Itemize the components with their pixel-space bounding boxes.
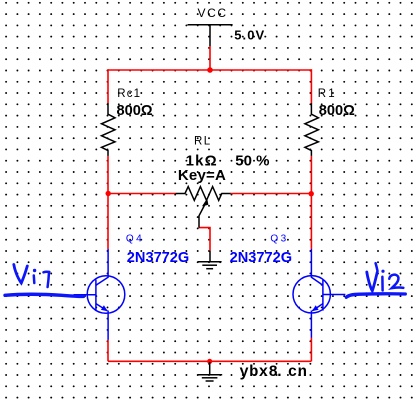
svg-text:Q4: Q4 — [126, 233, 144, 244]
svg-text:800Ω: 800Ω — [117, 103, 153, 119]
svg-text:Rc1: Rc1 — [117, 88, 141, 100]
svg-text:50 %: 50 % — [235, 152, 269, 169]
svg-text:ybx8.cn: ybx8.cn — [239, 363, 307, 381]
svg-text:5.0V: 5.0V — [234, 27, 265, 42]
svg-text:Q3: Q3 — [270, 233, 288, 244]
svg-text:800Ω: 800Ω — [319, 103, 355, 119]
svg-text:VCC: VCC — [198, 6, 228, 20]
svg-text:RL: RL — [194, 136, 212, 148]
svg-text:R1: R1 — [318, 88, 337, 100]
svg-text:2N3772G: 2N3772G — [127, 250, 189, 266]
svg-text:2N3772G: 2N3772G — [230, 250, 292, 266]
svg-text:Key=A: Key=A — [178, 167, 226, 184]
